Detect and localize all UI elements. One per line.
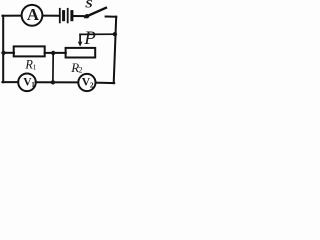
wire battery to switch	[72, 15, 86, 17]
wire right vertical	[114, 17, 117, 84]
voltmeter V1 circle	[18, 74, 36, 92]
wire ammeter to battery	[43, 15, 60, 17]
wire V1 to V2	[36, 81, 79, 83]
switch S terminal dot	[85, 14, 89, 18]
battery cell2 positive plate	[67, 9, 69, 23]
wiper arrowhead	[78, 42, 83, 47]
wiper arrow shaft	[79, 34, 81, 42]
wire middle junction down to voltmeter row	[52, 53, 54, 82]
switch S blade	[85, 8, 106, 17]
wire R1 to R2	[45, 52, 66, 54]
battery cell1 negative plate	[62, 12, 65, 20]
wire middle left segment	[2, 52, 14, 54]
junction dot right vertical / wiper wire	[113, 32, 117, 36]
svg-text:R2: R2	[70, 60, 82, 75]
junction dot between R1 and R2	[51, 51, 55, 55]
battery cell1 positive plate	[59, 9, 61, 23]
svg-text:P: P	[83, 28, 96, 49]
svg-text:S: S	[85, 0, 93, 11]
junction dot left vertical / middle wire	[2, 51, 6, 55]
ammeter A1 circle	[22, 5, 43, 26]
wire V2 to bottom-right corner	[96, 82, 115, 85]
wire wiper P to right vertical	[80, 33, 115, 35]
battery cell2 negative plate	[70, 12, 73, 20]
wire bottom-left corner to V1	[2, 81, 18, 83]
wire top-left horizontal	[2, 15, 21, 17]
wire switch to top-right corner	[106, 16, 117, 18]
wire left vertical	[2, 16, 4, 83]
resistor R1 box	[14, 46, 45, 56]
voltmeter V2 circle	[78, 74, 95, 91]
junction dot bottom wire	[51, 80, 55, 84]
svg-text:R1: R1	[24, 58, 36, 72]
svg-text:A: A	[27, 5, 39, 24]
resistor R2 box	[66, 48, 96, 58]
